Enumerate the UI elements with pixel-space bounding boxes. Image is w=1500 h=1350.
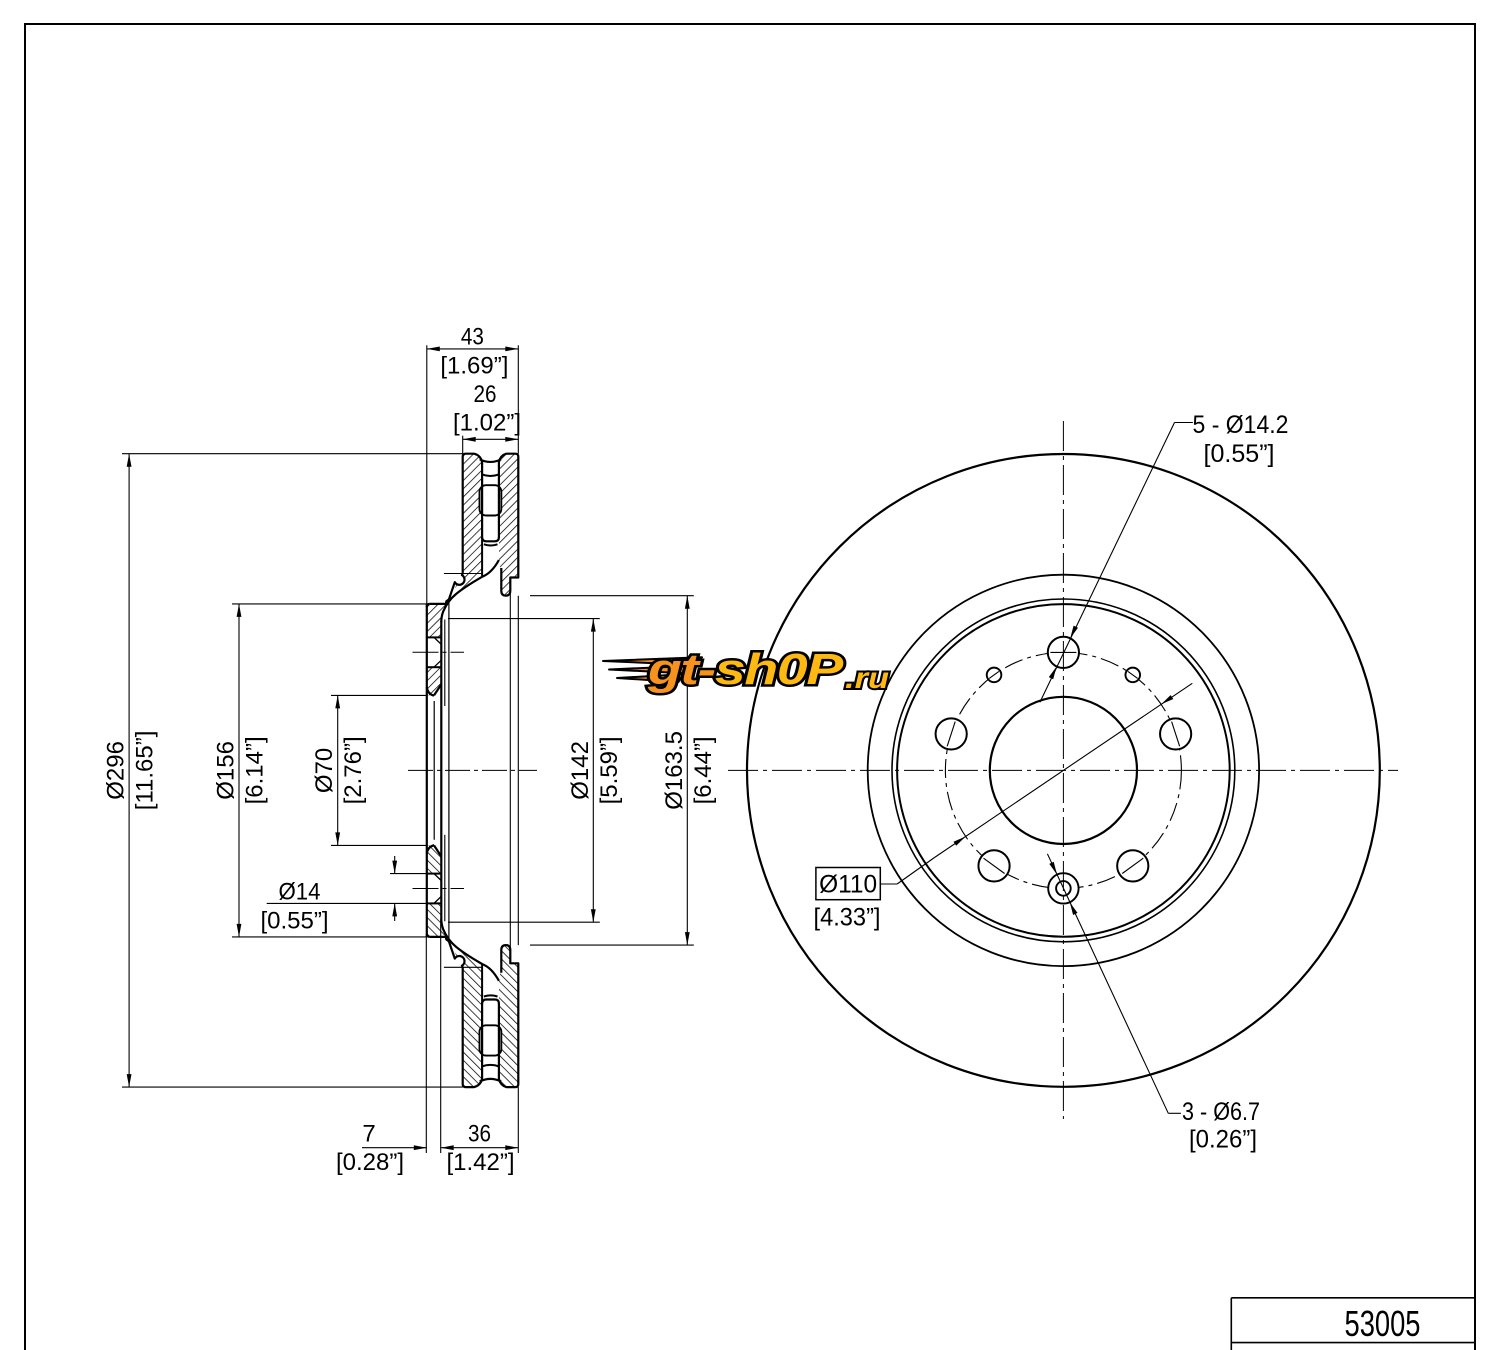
svg-text:Ø70: Ø70 — [311, 748, 338, 793]
bolt hole chamfer edges — [434, 637, 441, 644]
svg-text:36: 36 — [468, 1121, 491, 1148]
bolt hole center line (section) — [413, 651, 465, 653]
dimension &#216;163.5 (friction ring inner diameter) — [530, 595, 694, 597]
svg-text:gt-sh0P: gt-sh0P — [647, 645, 844, 694]
vent floor lip — [482, 538, 499, 542]
svg-text:Ø14: Ø14 — [279, 878, 321, 905]
wheel bolt hole 3 (&#216;14.2) — [978, 850, 1009, 881]
bore chamfer (right) — [434, 684, 441, 695]
dimension &#216;156 (flange diameter) — [232, 603, 427, 605]
front view vertical center line — [1062, 421, 1064, 1119]
bowl inner surface — [441, 919, 499, 981]
hub bore circle — [990, 697, 1137, 844]
front view horizontal center line — [728, 769, 1398, 771]
section view mirrored bottom half — [413, 845, 519, 1087]
svg-text:Ø156: Ø156 — [213, 741, 240, 800]
relief notch outline + bowl outer surface + step — [430, 937, 465, 967]
leader 3-&#216;6.7 — [1168, 1112, 1181, 1114]
vent vane (white) — [480, 485, 502, 515]
svg-text:Ø110: Ø110 — [819, 870, 877, 898]
hatch: rotor right friction plate (top half) — [499, 454, 518, 596]
svg-text:[0.55”]: [0.55”] — [1204, 440, 1275, 468]
bolt circle (dash-dot) — [945, 652, 1181, 888]
svg-text:[0.26”]: [0.26”] — [1189, 1125, 1257, 1153]
disc outer circle — [747, 454, 1380, 1087]
ring inner edge line — [444, 966, 482, 968]
svg-text:.ru: .ru — [845, 662, 889, 695]
svg-text:5 - Ø14.2: 5 - Ø14.2 — [1193, 411, 1289, 439]
gt-shop.ru watermark logo — [603, 657, 702, 665]
dimension 7 (flange thickness) — [425, 937, 427, 1153]
svg-text:[0.28”]: [0.28”] — [336, 1149, 404, 1176]
relief notch outline + bowl outer surface + step — [430, 574, 465, 604]
hat outer edge circles — [892, 599, 1235, 942]
svg-text:[11.65”]: [11.65”] — [132, 731, 159, 811]
svg-text:[6.44”]: [6.44”] — [690, 736, 717, 804]
bore chamfer (right) — [434, 845, 441, 856]
bolt hole section (white band) — [427, 637, 442, 667]
bore chamfer edge — [433, 701, 435, 840]
svg-text:7: 7 — [362, 1121, 375, 1148]
flange right face — [440, 621, 442, 920]
dimension &#216;296 (outer diameter) — [122, 453, 463, 455]
flange top corner — [427, 604, 430, 607]
svg-text:[1.69”]: [1.69”] — [440, 353, 508, 380]
svg-text:[6.14”]: [6.14”] — [242, 736, 269, 804]
dimension &#216;110 (bolt circle) — [935, 683, 1193, 857]
wheel bolt hole 4 (&#216;14.2) — [1117, 850, 1148, 881]
vent funnel opening (white) — [482, 964, 499, 1000]
flange top corner — [427, 934, 430, 937]
ring inner edge line — [444, 573, 482, 575]
svg-text:[4.33”]: [4.33”] — [814, 904, 881, 932]
dimension &#216;142 (bowl inner diameter) — [448, 618, 600, 620]
vent inlet channel floor — [480, 1079, 501, 1082]
bolt hole center line (section) — [413, 888, 465, 890]
ring step edge line — [509, 578, 511, 964]
svg-text:[0.55”]: [0.55”] — [260, 908, 328, 935]
right plate outline — [499, 454, 518, 596]
dimension &#216;14 (bolt hole) — [390, 873, 428, 875]
svg-text:[2.76”]: [2.76”] — [340, 736, 367, 804]
wheel bolt hole 5 (&#216;14.2) — [1160, 718, 1191, 749]
bowl inner surface — [441, 560, 499, 622]
hatch: rotor left friction plate (top half) — [463, 967, 482, 1087]
svg-text:3 - Ø6.7: 3 - Ø6.7 — [1182, 1098, 1260, 1126]
svg-text:Ø296: Ø296 — [103, 741, 130, 800]
right plate outline — [499, 945, 518, 1087]
bore entrance rounding (left) + bore edge — [427, 687, 434, 695]
svg-text:Ø163.5: Ø163.5 — [661, 731, 688, 810]
hatch: rotor right friction plate (top half) — [499, 945, 518, 1087]
vent funnel left edge — [481, 538, 483, 577]
vent floor lip — [482, 1000, 499, 1004]
dimension 43 (overall width) — [426, 345, 428, 604]
vent funnel left edge — [481, 964, 483, 1003]
ring face inner edge line — [517, 596, 519, 945]
bore entrance rounding (left) + bore edge — [427, 845, 434, 853]
dimension 26 (ring width) — [462, 436, 464, 454]
svg-text:[5.59”]: [5.59”] — [596, 736, 623, 804]
vent vane (white) — [480, 1025, 502, 1055]
svg-text:53005: 53005 — [1345, 1303, 1421, 1344]
bolt hole section (white band) — [427, 874, 442, 904]
left plate outline — [463, 454, 482, 574]
flange mounting face — [426, 604, 428, 937]
hatch: hat bowl wall and flange (top half) — [427, 845, 482, 967]
set screw hole (&#216;6.7) — [1125, 668, 1140, 683]
svg-text:Ø142: Ø142 — [567, 741, 594, 800]
left plate outline — [463, 967, 482, 1087]
title block — [1231, 1298, 1475, 1350]
hatch: rotor left friction plate (top half) — [463, 454, 482, 574]
svg-text:26: 26 — [474, 381, 497, 408]
leader 5-&#216;14.2 — [1175, 422, 1193, 424]
dimension 36 (hat depth) — [517, 1087, 519, 1153]
friction surface inner circle — [868, 575, 1259, 966]
wheel bolt hole 1 (&#216;14.2) — [1048, 637, 1079, 668]
section center line — [408, 769, 537, 771]
bolt hole chamfer edges — [434, 896, 441, 903]
hatch: hat bowl wall and flange (top half) — [427, 573, 482, 695]
dimension &#216;70 (hub bore) — [331, 694, 427, 696]
vent funnel opening (white) — [482, 541, 499, 577]
relief notch at plate/bowl junction — [454, 956, 464, 966]
svg-text:[1.42”]: [1.42”] — [446, 1149, 514, 1176]
vent inlet channel floor — [480, 459, 501, 462]
svg-text:[1.02”]: [1.02”] — [453, 410, 521, 437]
relief notch at plate/bowl junction — [454, 574, 464, 584]
wheel bolt hole 2 (&#216;14.2) — [936, 718, 967, 749]
bottom set screw hole with counterbore — [1048, 873, 1078, 903]
hat step edge lines — [444, 620, 446, 707]
set screw hole (&#216;6.7) — [987, 668, 1002, 683]
svg-text:43: 43 — [461, 323, 484, 350]
